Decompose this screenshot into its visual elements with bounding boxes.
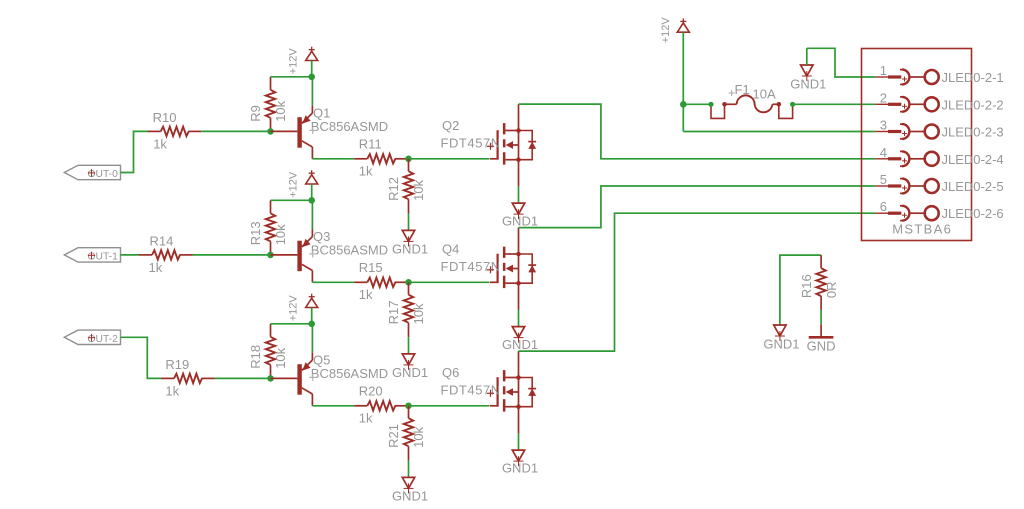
svg-text:6: 6 <box>880 199 887 214</box>
wire emitter Q5 to +12V <box>311 324 313 353</box>
resistor R18 10k <box>248 324 288 379</box>
transistor Q6 FDT457N (N-MOSFET) <box>441 365 537 412</box>
svg-text:R19: R19 <box>165 357 189 372</box>
wire +12V rail row2 <box>271 199 312 201</box>
resistor R15 1k <box>354 260 408 302</box>
connector pin 4 JLED0-2-4 <box>875 145 1003 167</box>
wire node to fuse F1 <box>683 103 711 105</box>
ground GND1 below Q4 <box>502 327 538 353</box>
svg-text:1k: 1k <box>165 384 179 399</box>
wire +12V lead row3 <box>311 308 313 324</box>
ground GND1 below Q6 <box>502 450 538 476</box>
svg-text:GND1: GND1 <box>392 489 428 504</box>
resistor R16 0R <box>799 255 839 310</box>
svg-text:0R: 0R <box>824 281 839 298</box>
wire source Q4 down <box>518 283 520 326</box>
svg-text:R10: R10 <box>153 110 177 125</box>
svg-text:+12V: +12V <box>660 17 672 44</box>
wire +12V to pin 3 <box>683 104 875 131</box>
svg-text:JLED0-2-2: JLED0-2-2 <box>942 97 1004 112</box>
connector pin 2 JLED0-2-2 <box>875 90 1003 112</box>
svg-text:R18: R18 <box>248 345 263 369</box>
wire +12V lead row2 <box>311 184 313 200</box>
ground GND1 below R12 <box>392 230 428 256</box>
svg-text:10A: 10A <box>753 87 776 102</box>
junction base row3 <box>267 375 274 382</box>
+12V supply symbol row2 <box>288 170 318 198</box>
wire OUT-0 to R10 <box>121 131 149 172</box>
wire R16 to GND <box>820 310 822 324</box>
svg-text:OUT-2: OUT-2 <box>88 334 119 345</box>
resistor R19 1k <box>161 357 215 399</box>
svg-text:10k: 10k <box>411 303 426 324</box>
svg-text:R17: R17 <box>386 301 401 325</box>
wire R17 to GND1 <box>408 337 410 354</box>
svg-text:GND1: GND1 <box>502 461 538 476</box>
svg-text:1: 1 <box>880 63 887 78</box>
svg-text:10k: 10k <box>411 426 426 447</box>
wire collector Q1 to R11 <box>312 158 354 160</box>
resistor R21 10k <box>386 406 426 461</box>
output flag OUT-2 <box>64 330 120 345</box>
wire +12V rail row3 <box>271 323 312 325</box>
svg-text:F1: F1 <box>735 82 750 97</box>
svg-text:3: 3 <box>880 118 887 133</box>
svg-text:JLED0-2-5: JLED0-2-5 <box>942 179 1004 194</box>
wire +12V lead row1 <box>311 61 313 77</box>
connector pin 6 JLED0-2-6 <box>875 199 1003 221</box>
wire drain Q6 up <box>518 351 520 377</box>
wire drain Q2 up <box>518 104 520 130</box>
wire source Q6 down <box>518 407 520 450</box>
connector pin 1 JLED0-2-1 <box>875 63 1003 85</box>
ground GND1 below R21 <box>392 477 428 503</box>
svg-text:1k: 1k <box>153 137 167 152</box>
svg-text:1k: 1k <box>359 164 373 179</box>
ground GND1 at pin 1 <box>790 65 826 92</box>
wire R10 to node base1 <box>201 130 270 132</box>
resistor R12 10k <box>386 159 426 214</box>
svg-text:GND: GND <box>807 338 836 353</box>
junction gate node row3 <box>405 403 412 410</box>
svg-text:R15: R15 <box>359 260 383 275</box>
wire R14 to node base2 <box>193 254 271 256</box>
wire collector Q5 to R20 <box>312 405 354 407</box>
svg-text:GND1: GND1 <box>763 337 799 352</box>
svg-text:R12: R12 <box>386 177 401 201</box>
resistor R20 1k <box>354 383 408 425</box>
svg-text:JLED0-2-6: JLED0-2-6 <box>942 206 1004 221</box>
svg-text:BC856ASMD: BC856ASMD <box>311 119 388 134</box>
wire collector Q3 to R15 <box>312 281 354 283</box>
svg-text:BC856ASMD: BC856ASMD <box>311 366 388 381</box>
svg-text:R11: R11 <box>359 136 382 151</box>
wire +12V to fuse node <box>682 32 684 104</box>
+12V supply symbol row1 <box>288 47 318 75</box>
+12V supply symbol row3 <box>288 294 318 322</box>
svg-text:10k: 10k <box>411 179 426 200</box>
svg-text:GND1: GND1 <box>392 365 428 380</box>
svg-text:FDT457N: FDT457N <box>441 259 501 274</box>
wire drain Q4 up <box>518 228 520 254</box>
svg-text:OUT-0: OUT-0 <box>88 169 119 180</box>
svg-text:OUT-1: OUT-1 <box>88 252 119 263</box>
svg-text:JLED0-2-3: JLED0-2-3 <box>942 125 1004 140</box>
svg-text:+12V: +12V <box>288 295 300 322</box>
junction +12V row2 <box>308 197 315 204</box>
svg-text:BC856ASMD: BC856ASMD <box>311 242 388 257</box>
wire R21 to GND1 <box>408 461 410 478</box>
svg-text:GND1: GND1 <box>502 337 538 352</box>
svg-text:1k: 1k <box>149 260 163 275</box>
junction +12V row1 <box>308 74 315 81</box>
wire OUT-1 to R14 <box>121 254 140 256</box>
svg-text:1k: 1k <box>359 287 373 302</box>
svg-text:Q2: Q2 <box>442 118 459 133</box>
resistor R9 10k <box>248 77 288 132</box>
wire Q4 drain to pin 5 <box>519 186 876 228</box>
junction +12V row3 <box>308 321 315 328</box>
wire gate node row3 <box>409 405 490 407</box>
wire Q2 drain to pin 4 <box>519 104 876 159</box>
svg-text:FDT457N: FDT457N <box>441 383 501 398</box>
connector MSTBA6 box <box>862 49 972 241</box>
svg-text:GND1: GND1 <box>790 77 826 92</box>
wire source Q2 down <box>518 160 520 203</box>
svg-text:GND1: GND1 <box>502 214 538 229</box>
resistor R17 10k <box>386 282 426 337</box>
transistor Q2 FDT457N (N-MOSFET) <box>441 118 537 165</box>
wire OUT-2 to R19 <box>121 337 162 378</box>
ground GND1 near R16 <box>763 325 799 352</box>
resistor R13 10k <box>248 200 288 255</box>
ground GND1 below Q2 <box>502 203 538 229</box>
svg-text:10k: 10k <box>273 347 288 368</box>
svg-text:+12V: +12V <box>288 171 300 198</box>
ground GND1 below R17 <box>392 354 428 380</box>
svg-text:+12V: +12V <box>288 48 300 75</box>
svg-text:Q4: Q4 <box>442 242 459 257</box>
svg-text:Q6: Q6 <box>442 365 459 380</box>
connector pin 3 JLED0-2-3 <box>875 118 1003 140</box>
svg-text:R14: R14 <box>150 234 174 249</box>
resistor R10 1k <box>148 110 202 152</box>
svg-text:10k: 10k <box>273 100 288 121</box>
svg-text:1k: 1k <box>359 411 373 426</box>
transistor Q4 FDT457N (N-MOSFET) <box>441 242 537 289</box>
svg-text:R13: R13 <box>248 221 263 245</box>
+12V supply symbol at fuse <box>660 17 690 44</box>
svg-text:R16: R16 <box>799 274 814 298</box>
wire R12 to GND1 <box>408 214 410 231</box>
svg-text:R21: R21 <box>386 424 401 448</box>
fuse F1 10A <box>708 82 795 118</box>
wire GND1 to R16 <box>780 255 821 325</box>
junction base row1 <box>267 128 274 135</box>
svg-text:MSTBA6: MSTBA6 <box>892 222 952 237</box>
wire gate node row2 <box>409 281 490 283</box>
connector pin 5 JLED0-2-5 <box>875 172 1003 194</box>
junction gate node row1 <box>405 156 412 163</box>
junction gate node row2 <box>405 279 412 286</box>
svg-text:JLED0-2-1: JLED0-2-1 <box>942 70 1004 85</box>
svg-text:GND1: GND1 <box>392 242 428 257</box>
wire +12V rail row1 <box>271 76 312 78</box>
transistor Q1 BC856ASMD (PNP) <box>271 105 389 158</box>
wire Q6 drain to pin 6 <box>519 213 876 351</box>
wire R19 to node base3 <box>215 377 271 379</box>
transistor Q3 BC856ASMD (PNP) <box>271 229 389 282</box>
svg-text:10k: 10k <box>273 224 288 245</box>
resistor R14 1k <box>139 234 193 276</box>
junction base row2 <box>267 252 274 259</box>
output flag OUT-1 <box>64 248 120 263</box>
wire GND1 to pin 1 <box>807 48 876 77</box>
svg-text:JLED0-2-4: JLED0-2-4 <box>942 152 1004 167</box>
svg-text:R9: R9 <box>248 105 263 122</box>
wire gate node row1 <box>409 158 490 160</box>
resistor R11 1k <box>354 136 408 178</box>
junction fuse node <box>680 101 687 108</box>
svg-text:R20: R20 <box>359 383 383 398</box>
svg-text:FDT457N: FDT457N <box>441 136 501 151</box>
svg-text:4: 4 <box>880 145 887 160</box>
wire fuse to pin 2 <box>793 103 876 105</box>
ground GND symbol <box>807 324 836 353</box>
wire emitter Q3 to +12V <box>311 200 313 229</box>
wire emitter Q1 to +12V <box>311 77 313 106</box>
svg-text:2: 2 <box>880 90 887 105</box>
transistor Q5 BC856ASMD (PNP) <box>271 352 389 405</box>
svg-text:5: 5 <box>880 172 887 187</box>
output flag OUT-0 <box>64 165 120 180</box>
